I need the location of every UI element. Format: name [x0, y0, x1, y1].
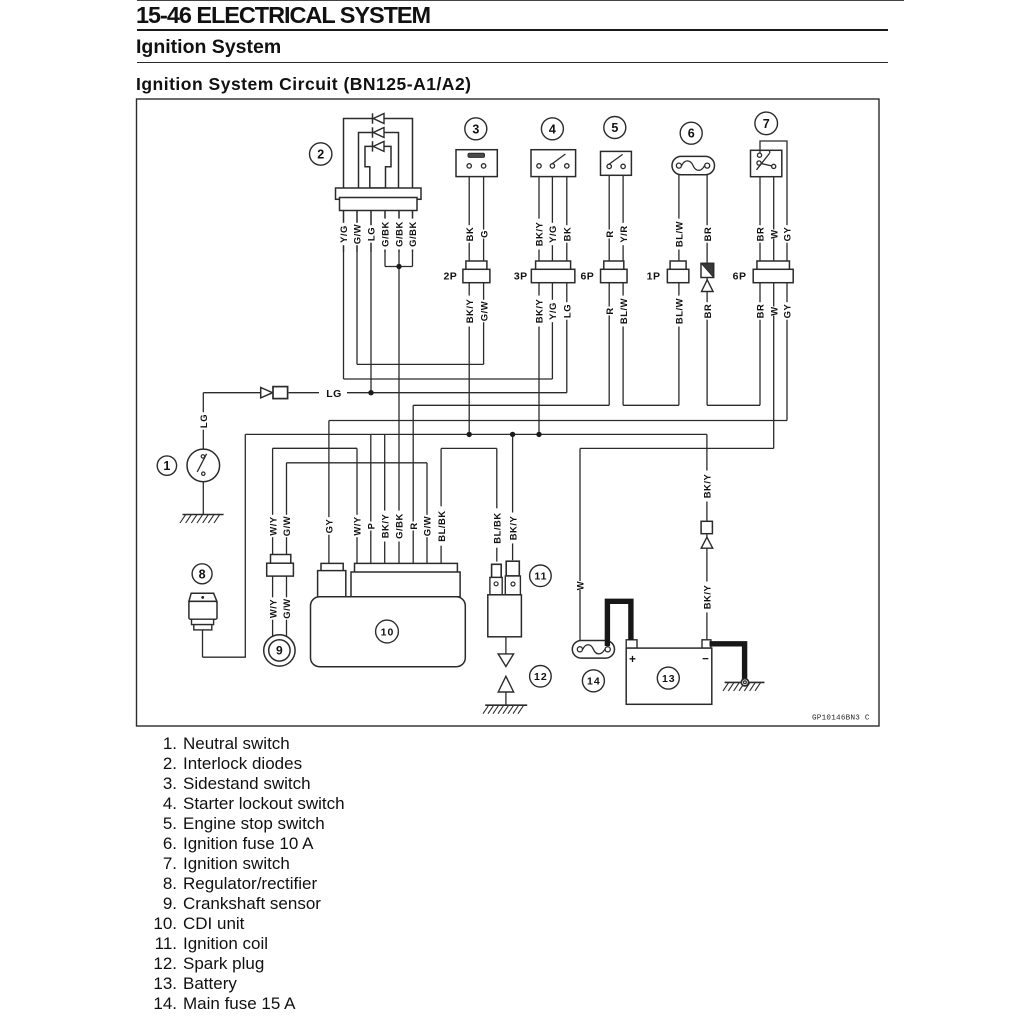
svg-text:BK/Y: BK/Y [702, 474, 713, 499]
svg-text:BK/Y: BK/Y [379, 514, 390, 539]
svg-text:BL/BK: BL/BK [436, 510, 447, 541]
svg-text:W: W [768, 306, 779, 315]
svg-text:GY: GY [324, 518, 335, 533]
svg-text:BR: BR [702, 304, 713, 319]
svg-text:13: 13 [662, 673, 676, 685]
svg-text:G/BK: G/BK [380, 221, 391, 247]
svg-text:BR: BR [702, 227, 713, 242]
svg-text:P: P [366, 523, 377, 530]
svg-text:LG: LG [326, 388, 342, 400]
svg-text:14: 14 [587, 676, 601, 688]
svg-text:BK/Y: BK/Y [534, 222, 545, 247]
svg-text:Y/G: Y/G [547, 302, 558, 320]
svg-text:LG: LG [198, 414, 209, 428]
svg-text:R: R [408, 522, 419, 529]
svg-text:3P: 3P [514, 270, 528, 282]
svg-text:6P: 6P [580, 270, 594, 282]
svg-text:2P: 2P [443, 270, 457, 282]
svg-text:BR: BR [755, 227, 766, 242]
svg-text:LG: LG [366, 227, 377, 241]
svg-text:BR: BR [755, 304, 766, 319]
svg-text:W/Y: W/Y [267, 516, 278, 536]
svg-text:BK/Y: BK/Y [464, 299, 475, 324]
svg-text:Y/G: Y/G [338, 225, 349, 243]
svg-text:+: + [629, 654, 636, 666]
svg-text:GP10146BN3 C: GP10146BN3 C [812, 715, 870, 723]
svg-text:BK: BK [464, 227, 475, 242]
svg-text:7: 7 [763, 117, 770, 131]
svg-text:G/W: G/W [422, 516, 433, 536]
svg-text:−: − [702, 654, 709, 666]
svg-text:LG: LG [562, 304, 573, 318]
svg-text:G/BK: G/BK [407, 221, 418, 247]
svg-text:Y/G: Y/G [547, 225, 558, 243]
svg-text:BL/W: BL/W [618, 298, 629, 324]
svg-text:4: 4 [549, 122, 556, 136]
svg-text:G/W: G/W [281, 516, 292, 536]
svg-text:W/Y: W/Y [352, 516, 363, 536]
svg-text:2: 2 [317, 148, 324, 162]
svg-text:G/BK: G/BK [394, 221, 405, 247]
svg-text:BK: BK [562, 227, 573, 242]
svg-text:GY: GY [782, 226, 793, 241]
svg-text:W/Y: W/Y [267, 599, 278, 619]
svg-text:G/W: G/W [478, 301, 489, 321]
svg-text:8: 8 [199, 567, 206, 581]
svg-text:G/W: G/W [352, 224, 363, 244]
svg-text:5: 5 [611, 121, 618, 135]
svg-text:BK/Y: BK/Y [534, 299, 545, 324]
svg-text:G: G [478, 230, 489, 238]
svg-text:BK/Y: BK/Y [702, 585, 713, 610]
svg-text:9: 9 [276, 644, 283, 658]
svg-text:W: W [768, 229, 779, 238]
svg-text:R: R [604, 307, 615, 314]
svg-text:G/W: G/W [281, 598, 292, 618]
svg-text:10: 10 [381, 626, 395, 638]
svg-text:6P: 6P [733, 270, 747, 282]
svg-text:BL/W: BL/W [674, 298, 685, 324]
svg-text:1: 1 [163, 459, 170, 473]
svg-text:R: R [604, 230, 615, 237]
svg-text:BK/Y: BK/Y [507, 516, 518, 541]
svg-text:1P: 1P [647, 270, 661, 282]
svg-text:12: 12 [534, 671, 548, 683]
svg-text:BL/W: BL/W [674, 221, 685, 247]
svg-text:G/BK: G/BK [394, 513, 405, 539]
svg-text:W: W [575, 581, 586, 590]
svg-text:BL/BK: BL/BK [492, 512, 503, 543]
svg-text:3: 3 [472, 122, 479, 136]
svg-text:GY: GY [782, 303, 793, 318]
svg-text:11: 11 [534, 571, 547, 583]
svg-text:Y/R: Y/R [618, 225, 629, 242]
svg-text:6: 6 [688, 127, 695, 141]
